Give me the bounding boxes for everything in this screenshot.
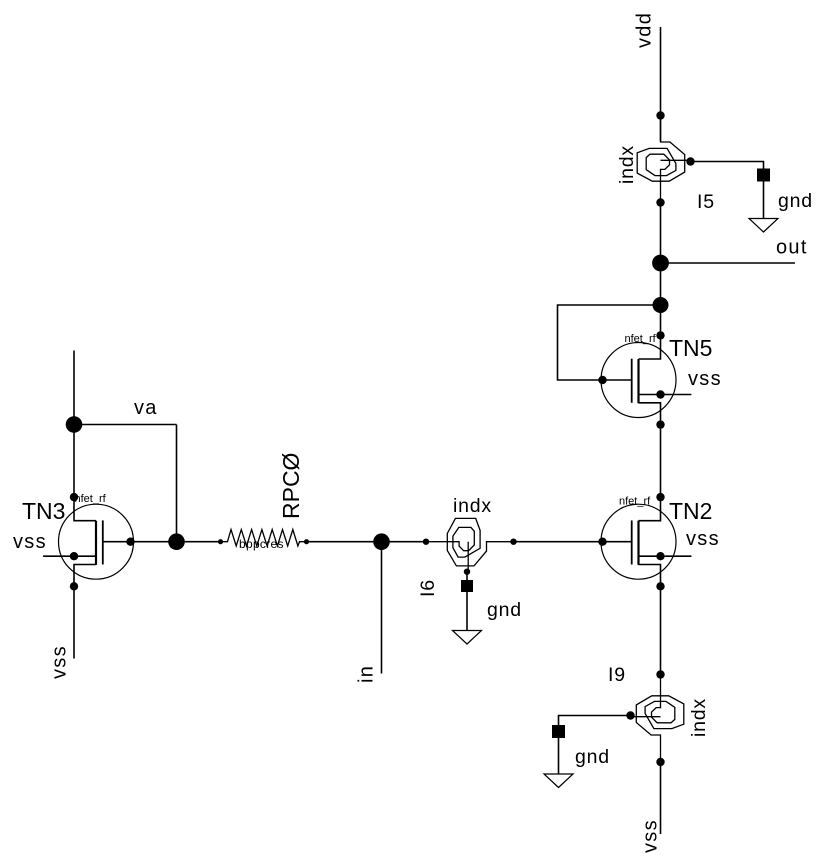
node gate junction dot: [168, 533, 185, 550]
wire I9 tap to gnd square: [559, 716, 631, 726]
wire vdd vertical: [660, 27, 662, 142]
pin dot TN2 gate: [598, 538, 606, 546]
svg-text:TN5: TN5: [669, 335, 712, 361]
wire I5 tap to gnd square: [691, 162, 764, 169]
pin dot I5 tap: [686, 157, 694, 165]
wire TN2 source to I9: [660, 586, 662, 674]
pin dot TN3 bulk: [70, 552, 78, 560]
gnd triangle I9: [544, 774, 573, 788]
wire va horizontal: [74, 424, 177, 426]
gnd triangle I6: [453, 631, 482, 645]
wire in node to I6: [382, 541, 427, 543]
pin dot I6 right: [510, 539, 516, 545]
pin dot TN5 bulk: [656, 390, 664, 398]
svg-text:gnd: gnd: [575, 746, 610, 768]
inductor I5: [637, 115, 690, 203]
transistor TN5: [601, 335, 691, 424]
pin dot vdd/I5 top: [656, 111, 664, 119]
svg-text:out: out: [776, 236, 808, 258]
svg-text:I5: I5: [697, 191, 715, 213]
svg-text:vss: vss: [640, 819, 662, 853]
svg-text:bppcres: bppcres: [239, 537, 284, 551]
wire I6 tap stub: [466, 572, 468, 580]
pin dot I5 bottom: [656, 198, 664, 206]
svg-text:RPCØ: RPCØ: [278, 452, 304, 519]
svg-text:indx: indx: [453, 495, 492, 517]
wire I6 gnd stub: [466, 592, 468, 631]
svg-text:nfet_rf: nfet_rf: [619, 496, 651, 508]
pin dot I9 tap: [626, 711, 634, 719]
inductor I9: [631, 675, 684, 763]
svg-text:nfet_rf: nfet_rf: [625, 333, 657, 345]
wire I5 to TN5 drain: [660, 203, 662, 336]
svg-text:indx: indx: [616, 145, 638, 184]
pin dot resistor right: [304, 539, 309, 544]
gnd square I6: [461, 580, 473, 592]
node in junction dot: [373, 533, 390, 550]
pin dot resistor left: [218, 539, 223, 544]
wire out horizontal: [661, 262, 796, 264]
wire TN5 gate feedback loop: [558, 305, 661, 380]
svg-text:vss: vss: [49, 645, 71, 679]
wire va vertical: [176, 425, 178, 542]
wire TN3 drain vertical: [73, 351, 75, 498]
gnd square I9: [552, 725, 565, 738]
svg-text:TN3: TN3: [22, 498, 65, 524]
transistor TN3 (mirrored): [43, 497, 133, 586]
wire TN3 gate to resistor: [131, 541, 221, 543]
inductor I6: [426, 518, 514, 571]
svg-text:vss: vss: [13, 531, 47, 553]
svg-text:I9: I9: [608, 664, 626, 686]
svg-text:gnd: gnd: [487, 599, 522, 621]
wire in stub down: [381, 542, 383, 674]
pin dot TN2 drain: [656, 493, 664, 501]
svg-text:vss: vss: [688, 368, 722, 390]
pin dot I6 left: [423, 539, 429, 545]
svg-text:indx: indx: [688, 698, 710, 737]
wire I5 gnd stub: [763, 182, 765, 219]
wire TN3 source to vss: [73, 586, 75, 658]
transistor TN2: [601, 497, 691, 586]
svg-text:nfet_rf: nfet_rf: [75, 493, 107, 505]
pin dot TN2 source: [656, 582, 664, 590]
pin dot I9 top: [656, 670, 664, 678]
svg-text:va: va: [134, 397, 158, 419]
svg-text:TN2: TN2: [669, 498, 712, 524]
pin dot I6 tap: [464, 569, 470, 575]
wire resistor to in node: [307, 541, 382, 543]
pin dot I9 bottom: [656, 758, 664, 766]
pin dot TN5 drain: [656, 331, 664, 339]
pin dot TN3 gate: [126, 538, 134, 546]
pin dot TN5 source: [656, 420, 664, 428]
gnd square I5: [757, 169, 770, 182]
pin dot TN2 bulk: [656, 552, 664, 560]
svg-text:vdd: vdd: [634, 12, 656, 48]
svg-text:gnd: gnd: [778, 190, 813, 212]
pin dot TN3 source: [70, 582, 78, 590]
resistor RPC0 zigzag: [221, 530, 307, 547]
wire I9 to vss: [660, 762, 662, 834]
wire I6 to TN2 gate: [514, 541, 603, 543]
node TN5 drain junction dot: [653, 297, 669, 313]
svg-text:vss: vss: [686, 528, 720, 550]
svg-text:I6: I6: [417, 579, 439, 597]
svg-text:in: in: [356, 665, 378, 683]
gnd triangle I5: [749, 219, 778, 233]
node out junction dot: [652, 255, 669, 272]
pin dot TN3 drain: [70, 493, 78, 501]
wire I9 gnd stub: [558, 738, 560, 774]
node va junction dot: [66, 416, 83, 433]
pin dot TN5 gate: [598, 376, 606, 384]
wire TN5 source to TN2 drain: [660, 425, 662, 498]
